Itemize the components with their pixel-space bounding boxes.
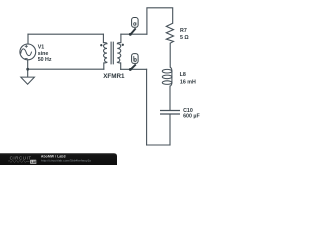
wire L8 to C10 [169,86,171,110]
primary phase dot [100,44,102,46]
secondary coil [117,43,121,63]
wire secondary top to switch a [121,33,147,35]
core [111,42,113,65]
svg-text:LAB: LAB [31,160,39,164]
wire switch a to top-right corner [147,8,173,34]
svg-text:CIRCUIT: CIRCUIT [10,156,32,161]
svg-text:R7: R7 [180,28,187,34]
wire primary top lead [102,34,104,42]
svg-text:sine: sine [38,51,49,57]
switch SW b [129,54,138,71]
svg-text:50 Hz: 50 Hz [38,57,52,63]
svg-text:600 µF: 600 µF [183,114,200,120]
wire bottom-right [147,144,170,146]
wire secondary top lead [120,34,122,42]
transformer XFMR1 [103,42,121,65]
wire top-left: V1 top to primary top [28,33,103,35]
svg-text:http://circuitlab.com/5bb4kefw: http://circuitlab.com/5bb4kefwuy2o [41,159,91,163]
wire V1 top lead [27,34,29,44]
inductor L8 [162,67,172,86]
svg-text:XFMR1: XFMR1 [103,73,125,80]
ground [21,77,35,84]
wire bottom-left: V1 bottom to primary bottom [28,68,104,70]
primary coil [103,43,107,63]
voltage source V1 [20,44,36,60]
label C10 [183,108,200,120]
svg-text:16 mH: 16 mH [180,80,196,86]
resistor R7 [166,23,173,43]
node junction V1/ground [26,68,29,71]
switch SW a [129,18,138,36]
secondary phase dot [122,44,124,46]
wire right riser to switch b [146,69,148,145]
wire primary bottom lead [103,63,105,69]
wire secondary bottom to switch b [121,68,147,70]
svg-text:L8: L8 [180,72,186,78]
wire secondary bottom lead [120,63,122,69]
capacitor C10 [160,111,180,115]
wire V1 bottom lead [27,60,29,69]
wire C10 bottom lead [169,115,171,146]
wire ground stem [27,69,29,77]
svg-text:5 Ω: 5 Ω [180,35,189,41]
watermark bar [0,153,117,165]
label R7 [180,28,189,41]
label L8 [180,72,196,85]
svg-text:V1: V1 [38,45,45,51]
label V1 [38,45,52,63]
wire R7 to L8 [169,43,171,67]
